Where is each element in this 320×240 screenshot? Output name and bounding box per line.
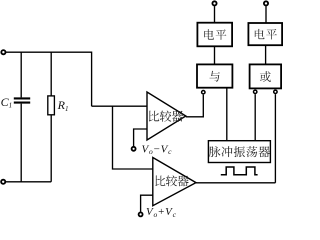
OR gate block (或) xyxy=(250,64,282,88)
svg-text:R1: R1 xyxy=(57,98,69,113)
comparator U2 label 比较器 xyxy=(155,175,188,186)
wire OR gate to pulse oscillator xyxy=(254,94,256,141)
level block 2 (电平) xyxy=(248,23,282,45)
wire to comparator 1 non-inverting input xyxy=(92,105,147,107)
comparator U1 label 比较器 xyxy=(149,111,183,122)
wire comparator 1 inverting input xyxy=(134,129,147,146)
wire branch to comparator 2 non-inverting input xyxy=(113,106,153,169)
resistor R1 xyxy=(48,52,55,182)
wire comparator 1 output to AND gate xyxy=(186,95,204,117)
capacitor C1 xyxy=(14,52,30,182)
AND gate block (与) xyxy=(197,64,232,87)
pulse oscillator block (脉冲振荡器) xyxy=(208,141,270,163)
wire terminal to level block 2 xyxy=(265,6,267,23)
wire OR gate to comparator 2 output xyxy=(274,94,276,183)
wire comparator 2 output xyxy=(196,182,275,184)
comparator U1 triangle xyxy=(147,92,186,140)
junction circle OR output left xyxy=(254,90,257,93)
wire comparator 2 inverting input xyxy=(141,195,153,212)
wire level block 1 to AND gate xyxy=(214,46,216,64)
input terminal top-left xyxy=(1,50,5,54)
svg-text:Vo−Vc: Vo−Vc xyxy=(142,143,173,156)
wire level block 2 to OR gate xyxy=(265,45,267,64)
reference terminal Vo+Vc xyxy=(139,212,143,216)
terminal above level block 1 xyxy=(212,1,216,5)
terminal above level block 2 xyxy=(264,1,268,5)
junction circle OR output right xyxy=(274,90,277,93)
reference terminal Vo-Vc xyxy=(132,147,136,151)
svg-text:Vo+Vc: Vo+Vc xyxy=(146,206,177,218)
input terminal bottom-left xyxy=(1,180,5,184)
svg-text:C1: C1 xyxy=(1,95,13,110)
wire AND gate to pulse oscillator xyxy=(226,88,228,141)
comparator U2 triangle xyxy=(153,158,196,206)
junction circle at AND gate input xyxy=(202,91,205,94)
level block 1 (电平) xyxy=(197,23,232,47)
wire bottom rail xyxy=(6,181,51,183)
wire top rail xyxy=(6,52,92,106)
square wave symbol xyxy=(221,167,258,175)
wire terminal to level block 1 xyxy=(214,6,216,23)
